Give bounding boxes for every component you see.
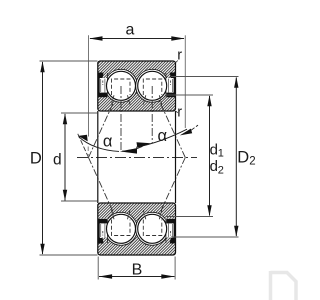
dim D2: arrow bottom xyxy=(234,226,238,237)
cage dashed rect top-right ball xyxy=(143,79,162,105)
ball top-right xyxy=(138,71,167,100)
ball top-left xyxy=(107,71,136,100)
dim D2: leader top xyxy=(171,76,239,78)
centerline (horizontal axis, dash-dot) xyxy=(77,157,197,159)
contact line row2 upper (dashed through top-right ball) xyxy=(145,70,185,157)
dim B: extension left xyxy=(97,257,99,280)
svg-text:2: 2 xyxy=(249,156,255,168)
top section (upper half of bearing cross-section) xyxy=(97,61,176,111)
section outline top xyxy=(98,61,176,111)
raceway carve top-right xyxy=(136,69,169,102)
dim d: line xyxy=(64,114,66,201)
dim d1d2: arrow bottom xyxy=(207,205,211,216)
silhouette bore edge right xyxy=(175,111,177,203)
svg-text:r: r xyxy=(177,47,182,63)
contact line row1 extension above apex xyxy=(78,133,89,157)
svg-text:D: D xyxy=(30,150,42,168)
dim D2: line xyxy=(235,78,237,237)
dim d1d2: leader top xyxy=(166,94,214,96)
dim a: arrow left xyxy=(89,36,102,40)
cage dashed rect bottom-right ball xyxy=(143,210,162,236)
radial line row1 (alpha reference) xyxy=(120,86,122,152)
dim D: extension top xyxy=(40,60,98,62)
silhouette bore edge left xyxy=(97,111,99,203)
watermark logo bottom right xyxy=(271,271,297,300)
seal cavity carve right bottom xyxy=(166,219,176,238)
seal left (top section) xyxy=(98,73,107,98)
outer+inner ring hatched block top xyxy=(98,61,176,111)
dim B: arrow right xyxy=(161,274,174,278)
dim d1d2: leader bottom xyxy=(166,216,214,218)
seal cavity carve left xyxy=(97,78,107,97)
dim d1d2: arrow top xyxy=(207,95,211,106)
alpha arrow right-inner xyxy=(137,142,151,147)
alpha arrow left-inner xyxy=(120,148,137,153)
svg-text:r: r xyxy=(177,104,182,120)
dim d: extension top xyxy=(61,112,98,114)
contact line row2 lower (dashed through bottom-right ball) xyxy=(145,158,185,246)
dim B: line xyxy=(99,276,175,278)
dim B: arrow left xyxy=(99,274,112,278)
svg-text:2: 2 xyxy=(218,165,224,177)
dim d: extension bottom xyxy=(61,200,98,202)
svg-text:d: d xyxy=(210,158,218,175)
svg-text:α: α xyxy=(103,133,113,151)
dim D2: leader bottom xyxy=(171,236,239,238)
alpha arrow right-outer xyxy=(180,129,192,136)
contact line row1 upper (dashed through top-left ball) xyxy=(89,70,129,157)
dim D: line xyxy=(42,62,44,254)
svg-text:D: D xyxy=(237,148,249,166)
dim d: arrow top xyxy=(63,113,67,124)
dim a: arrow right xyxy=(171,36,184,40)
alpha arrow left-outer xyxy=(78,135,88,142)
raceway carve top-left xyxy=(105,69,138,102)
alpha arc left xyxy=(79,137,120,152)
dim D: arrow bottom xyxy=(40,244,44,255)
svg-text:1: 1 xyxy=(218,148,224,160)
svg-text:d: d xyxy=(53,151,62,168)
seal left (bottom section) xyxy=(98,219,107,244)
cage dashed rect bottom-left ball xyxy=(112,210,131,236)
ball bottom-left xyxy=(107,214,136,243)
svg-text:d: d xyxy=(210,142,218,159)
svg-text:a: a xyxy=(126,21,135,38)
dim D: arrow top xyxy=(40,61,44,72)
seal cavity carve left bottom xyxy=(97,219,107,238)
dim d: arrow bottom xyxy=(63,190,67,201)
cage dashed rect top-left ball xyxy=(112,79,131,105)
dim d1d2: line xyxy=(209,96,211,216)
raceway carve bottom-right xyxy=(136,212,169,245)
contact line row1 lower (dashed through bottom-left ball) xyxy=(89,158,129,246)
dim a: extension line left (apex line) xyxy=(88,35,90,136)
section outline bottom xyxy=(98,203,176,255)
svg-text:B: B xyxy=(132,262,143,279)
dim D: extension bottom xyxy=(40,254,98,256)
seal right (top section) xyxy=(166,73,175,98)
dim a: line xyxy=(90,38,184,40)
bottom section (lower half of bearing cross-section) xyxy=(97,203,176,255)
radial line row2 (alpha reference) xyxy=(151,86,153,144)
alpha arc right xyxy=(136,129,187,147)
svg-text:α: α xyxy=(158,127,168,145)
dim a: extension line right (apex line) xyxy=(184,35,186,128)
ball bottom-right xyxy=(138,214,167,243)
ring hatched block bottom xyxy=(98,203,176,255)
dim B: extension right xyxy=(174,257,176,280)
raceway carve bottom-left xyxy=(105,212,138,245)
alpha arc right dashes beyond xyxy=(191,125,198,130)
seal cavity carve right xyxy=(166,78,176,97)
dim D2: arrow top xyxy=(234,77,238,88)
seal right (bottom section) xyxy=(166,219,175,244)
